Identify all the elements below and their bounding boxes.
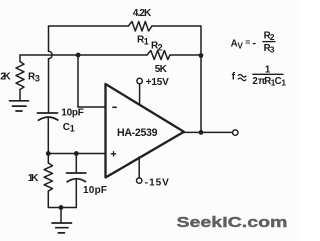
wire 1K top lead <box>47 154 49 164</box>
resistor R3 2K zigzag <box>16 62 24 90</box>
svg-text:HA-2539: HA-2539 <box>117 127 158 139</box>
capacitor C1 curved plate <box>39 117 58 120</box>
capacitor 10pF flat plate <box>67 172 86 174</box>
wire top net: output to R1 <box>49 25 129 27</box>
terminal circle output <box>233 130 238 135</box>
wire bottom net <box>48 207 76 209</box>
wire to C1 top <box>48 59 50 113</box>
svg-text:4.2K: 4.2K <box>133 8 152 19</box>
svg-text:1K: 1K <box>28 173 39 184</box>
op-amp minus sign <box>112 106 117 108</box>
svg-text:-15V: -15V <box>145 177 169 188</box>
wire to op-amp minus input <box>78 106 105 108</box>
wire cap2 bottom lead <box>75 179 77 208</box>
wire C1 bottom to node <box>47 117 49 153</box>
svg-text:10pF: 10pF <box>83 185 107 196</box>
ground G1 bars <box>10 100 29 102</box>
resistor R1 4.2K zigzag <box>128 22 152 32</box>
svg-text:V: V <box>237 42 243 51</box>
junction dot C1/1K node <box>46 151 51 156</box>
wire hop arc <box>49 51 53 58</box>
wire R3 top lead <box>19 55 21 62</box>
svg-text:5K: 5K <box>155 64 168 75</box>
wire right vertical x=201 from top corner to output node <box>200 26 202 132</box>
resistor R 1K zigzag <box>44 163 52 191</box>
wire R3 bottom to ground <box>19 90 21 101</box>
terminal circle +15V <box>137 78 142 83</box>
svg-text:1: 1 <box>281 78 286 88</box>
svg-text:10pF: 10pF <box>61 107 84 118</box>
wire output <box>184 131 232 133</box>
svg-text:2K: 2K <box>0 71 11 82</box>
wire 5K right to corner dot <box>170 54 201 56</box>
wire feedback vertical x=48.5 with hop over y=55 <box>48 26 50 51</box>
junction dot ground2 <box>59 205 64 210</box>
svg-text:f: f <box>232 72 236 83</box>
ground G2 bars <box>52 222 72 224</box>
resistor R2 5K zigzag <box>147 51 170 60</box>
svg-text:3: 3 <box>35 74 40 84</box>
wire ground2 lead <box>60 208 62 223</box>
terminal circle -15V <box>137 178 142 183</box>
wire inverting input drop x=78 <box>77 55 79 107</box>
junction dot cap2 node <box>74 151 79 156</box>
-15V supply lead <box>138 157 140 178</box>
svg-text:=: = <box>245 37 250 47</box>
svg-text:2: 2 <box>270 32 275 42</box>
junction dot output <box>199 130 204 135</box>
svg-text:2: 2 <box>158 42 163 52</box>
op-amp U1 triangle <box>106 84 185 178</box>
capacitor C1 flat plate <box>38 112 58 114</box>
op-amp plus sign <box>111 151 116 156</box>
svg-text:1: 1 <box>70 123 75 133</box>
wire inverting net horizontal y=55 <box>20 54 147 56</box>
junction dot R2 right <box>199 53 204 58</box>
capacitor 10pF curved plate <box>67 179 85 182</box>
svg-text:1: 1 <box>144 36 149 46</box>
wire cap2 top lead <box>75 154 77 173</box>
svg-text:SeekIC.com: SeekIC.com <box>177 213 288 230</box>
wire non-inverting net y=153.5 <box>48 153 105 155</box>
+15V supply lead <box>139 84 141 105</box>
svg-text:3: 3 <box>270 45 275 55</box>
junction dot inverting node <box>76 53 81 58</box>
svg-text:+15V: +15V <box>146 77 169 88</box>
wire R1 right to corner <box>152 25 201 27</box>
wire 1K bottom lead <box>47 191 49 208</box>
svg-text:2: 2 <box>252 76 257 87</box>
